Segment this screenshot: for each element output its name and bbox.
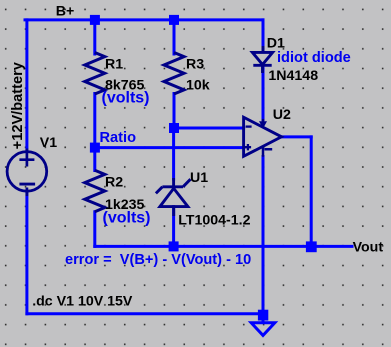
svg-text:Ratio: Ratio [100,130,137,146]
diode D1 [252,46,272,73]
wire R1 bottom lead [93,94,96,148]
svg-text:LT1004-1.2: LT1004-1.2 [178,212,250,228]
junction Ratio / R1-R2 [90,143,100,153]
junction zener bottom / Vout net [169,241,179,251]
svg-text:V1: V1 [40,135,57,151]
wire R2 top lead [93,148,96,171]
wire R3 bottom lead [173,94,176,129]
wire Ratio horizontal [95,146,244,149]
wire opamp V- down to ground junction [262,157,265,314]
wire opamp output [281,135,311,138]
junction opamp output / Vout net [306,241,317,252]
wire R3 top lead [173,20,176,54]
resistor R1 [85,53,105,95]
op-amp V- pin lead and minus tick [263,146,272,157]
junction B+ / R3 [169,15,179,25]
wire zener top [172,128,175,179]
op-amp plus input marker [245,144,251,150]
wire output down to Vout [310,137,313,247]
wire battery bottom down [25,193,28,314]
svg-text:U1: U1 [190,170,208,186]
junction ground node [258,310,268,321]
wire Vout horizontal [95,245,352,248]
svg-text:U2: U2 [273,107,291,123]
voltage source V1 circle [7,152,47,192]
svg-text:(volts): (volts) [103,209,151,226]
svg-text:R3: R3 [186,57,204,73]
V1 minus sign [19,183,35,186]
wire minus input horizontal [174,127,244,130]
svg-text:(volts): (volts) [102,89,150,106]
wire left vertical from B+ to battery [25,20,28,149]
svg-text:idiot diode: idiot diode [277,50,351,66]
svg-text:B+: B+ [56,3,75,19]
svg-text:R2: R2 [105,175,123,191]
V1 plus sign [19,149,34,167]
wire ground stub [262,314,265,322]
svg-text:1N4148: 1N4148 [268,68,318,84]
junction minus net / R3-zener [169,123,179,133]
wire R2 bottom lead [93,212,96,247]
wire D1 cathode to opamp V+ [262,68,265,120]
svg-text:10k: 10k [186,78,210,94]
svg-text:Vout: Vout [353,240,384,256]
svg-text:.dc V1 10V 15V: .dc V1 10V 15V [32,294,133,310]
resistor R3 [164,53,184,95]
zener U1 [156,178,191,216]
wire R1 top lead [93,20,96,54]
junction B+ / R1 [90,15,100,25]
op-amp V+ pin arrow head [259,121,267,128]
svg-text:R1: R1 [105,57,123,73]
svg-text:+12V/battery: +12V/battery [10,61,26,149]
wire bottom rail [27,312,263,315]
op-amp U2 triangle [244,117,282,156]
V1 bottom lead [26,188,29,197]
op-amp minus input marker [246,125,252,127]
wire zener bottom [172,207,175,247]
svg-text:error = V(B+) - V(Vout) - 10: error = V(B+) - V(Vout) - 10 [65,252,251,268]
op-amp V+ pin lead [262,119,265,124]
ground [251,323,275,336]
resistor R2 [85,170,105,212]
wire B+ top rail [25,18,263,21]
wire top rail corner down to D1 [262,20,265,49]
